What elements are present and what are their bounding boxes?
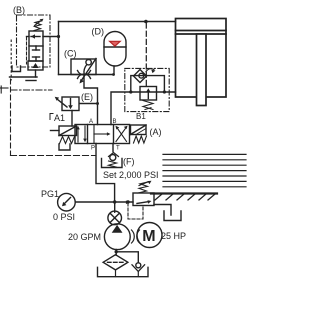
relief valve [126,193,154,206]
solenoid A1 [51,126,77,136]
relief valve spring [138,181,152,193]
manifold enclosure boundary (dash-dot) [1,40,97,156]
check valve in counterbalance [134,69,156,83]
solenoid B1 [131,125,147,135]
counterbalance remote pilot line (dashed) [145,23,147,86]
wire E drain down [71,111,73,127]
wire valve B left stub [27,36,30,38]
valve A left box arrows [76,126,87,142]
node junction E outlet [96,102,99,105]
label B1 [136,112,146,121]
label A1 [54,113,65,123]
label (A) [150,127,162,137]
electric motor M [137,223,162,248]
wire accumulator drop [113,66,115,75]
spring left (valve A) [60,137,75,144]
svg-text:B: B [113,119,117,125]
svg-text:(E): (E) [81,92,93,102]
pump P1 [104,224,130,250]
node junction at (58.5,36.5) [57,35,60,38]
valve A centre box path [94,125,111,143]
pressure reducing valve E [55,97,79,111]
node junction left [129,90,132,93]
wire T line [112,144,114,152]
svg-text:A1: A1 [54,113,65,123]
port letter P [91,146,95,152]
ground hatching [155,194,215,200]
svg-text:(F): (F) [123,157,135,167]
svg-text:PG1: PG1 [41,189,59,199]
valve B spring (top) [34,19,44,31]
svg-text:20 GPM: 20 GPM [68,232,101,242]
wire flow line through C [59,74,114,76]
port letter T [116,146,120,152]
valve A right box crossed arrows [116,126,128,142]
wire valve B pilot down [35,70,37,77]
valve B pilot box with triangle [28,61,43,70]
svg-text:(C): (C) [64,49,77,59]
node junction on cap line (pilot tap) [144,20,148,24]
svg-text:M: M [142,228,155,245]
wire valve B outlet to node [43,36,59,38]
wire cap-end line to cylinder [59,21,176,23]
valve B pilot drain line (dashed) [26,37,28,64]
flow control valve C [71,59,96,84]
gauge PG1 [58,193,76,211]
port letter B [113,119,117,125]
label 20 GPM [68,232,101,242]
label (C) [64,49,77,59]
label Set 2,000 PSI [103,170,159,180]
wire short segment [26,80,36,82]
svg-text:(B): (B) [13,5,25,15]
platen lines (load) [163,154,246,186]
svg-text:(A): (A) [150,127,162,137]
label (B) [13,5,25,15]
relief pilot line (dashed) [128,203,143,219]
label 0 PSI [53,212,75,222]
label (F) [123,157,135,167]
wire counterbalance check branch [131,76,165,92]
svg-text:B1: B1 [136,112,146,121]
wire C output to valve A port [84,75,98,125]
node junction relief pilot [126,200,129,203]
node junction right [163,90,166,93]
drain check valve [132,263,145,277]
wire E outlet [80,103,98,105]
wire branch to drain check [116,252,138,263]
cylinder [176,19,227,106]
svg-text:A: A [89,119,93,125]
svg-text:(D): (D) [92,27,105,37]
ground base line [151,192,217,194]
wire main vertical riser x=58.5 [58,22,60,75]
reservoir tank [98,267,149,276]
wire pump suction [115,250,117,256]
tank under solenoid A1 [59,144,70,150]
svg-text:T: T [116,146,120,152]
wire gauge to main junction [75,201,133,203]
accumulator D [104,32,126,67]
label (D) [92,27,105,37]
flow indicator (circle with X) [108,211,122,225]
motor coupling [132,230,140,243]
wire cylinder rod-end line [111,92,176,125]
svg-text:0 PSI: 0 PSI [53,212,75,222]
node junction suction branch [115,250,118,253]
node junction P/pump [113,200,116,203]
valve B 2-position vent valve [29,31,43,61]
svg-text:Set 2,000 PSI: Set 2,000 PSI [103,170,159,180]
tank under valve B [12,66,21,72]
check valve F [102,153,123,168]
node at accumulator tee [112,73,115,76]
directional valve A body [75,125,130,144]
label PG1 [41,189,59,199]
label (E) [81,92,93,102]
counterbalance enclosure (dash-dot box) [125,68,169,111]
wire relief outlet to tank [154,205,171,216]
svg-text:P: P [91,146,95,152]
counterbalance relief valve [140,87,157,110]
wire below valve B horizontal [10,76,38,78]
tank (relief outlet) [164,211,181,221]
valve B enclosure (dash-dot box) [17,15,51,67]
label 25 HP [161,231,186,241]
filter / strainer [103,255,128,277]
spring right (valve A) [134,136,147,143]
svg-text:25 HP: 25 HP [161,231,186,241]
port letter A [89,119,93,125]
wire P line [96,144,115,203]
wire junction to flow indicator [114,202,116,212]
